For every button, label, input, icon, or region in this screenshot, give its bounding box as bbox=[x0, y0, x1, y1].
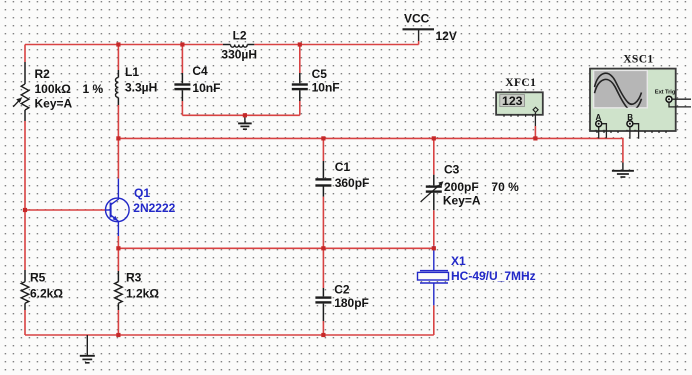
ground scope bbox=[612, 163, 634, 178]
svg-text:HC-49/U_7MHz: HC-49/U_7MHz bbox=[451, 269, 536, 283]
svg-text:3.3µH: 3.3µH bbox=[125, 80, 157, 94]
svg-text:70 %: 70 % bbox=[491, 180, 519, 194]
transistor Q1 bbox=[106, 179, 130, 236]
svg-text:Ext Trig: Ext Trig bbox=[655, 89, 676, 95]
junction top bus C5 bbox=[298, 42, 302, 46]
junction bottom bus C2 bbox=[321, 333, 325, 337]
svg-text:12V: 12V bbox=[436, 29, 457, 43]
svg-text:C2: C2 bbox=[334, 282, 350, 296]
svg-text:C3: C3 bbox=[444, 163, 460, 177]
svg-text:R3: R3 bbox=[126, 270, 142, 284]
svg-text:L1: L1 bbox=[125, 65, 139, 79]
svg-text:1 %: 1 % bbox=[83, 82, 104, 96]
junction collector bus XFC1 bbox=[533, 136, 537, 140]
svg-text:C1: C1 bbox=[335, 160, 351, 174]
svg-text:Key=A: Key=A bbox=[35, 96, 73, 110]
junction collector bus C1 bbox=[321, 136, 325, 140]
wire collector bus bbox=[118, 137, 606, 139]
svg-text:330µH: 330µH bbox=[221, 48, 257, 62]
ground tank bbox=[238, 115, 252, 129]
capacitor C4 bbox=[174, 45, 220, 116]
wire collector column bbox=[117, 45, 119, 336]
inductor L1 bbox=[115, 65, 157, 105]
wire top bus bbox=[25, 44, 419, 46]
capacitor C5 bbox=[292, 45, 340, 116]
svg-text:Key=A: Key=A bbox=[443, 193, 481, 207]
junction emitter bus X1 bbox=[432, 246, 436, 250]
svg-text:R5: R5 bbox=[30, 270, 46, 284]
svg-text:XSC1: XSC1 bbox=[623, 53, 653, 65]
junction emitter bus C2 bbox=[321, 246, 325, 250]
power VCC bbox=[403, 11, 457, 44]
junction top bus C4 bbox=[180, 42, 184, 46]
variable capacitor C3 bbox=[421, 138, 519, 210]
wire XFC1 drop bbox=[534, 113, 536, 139]
svg-text:10nF: 10nF bbox=[312, 80, 340, 94]
resistor R3 bbox=[115, 270, 160, 310]
svg-text:123: 123 bbox=[502, 94, 523, 108]
capacitor C1 bbox=[315, 138, 369, 248]
svg-text:10nF: 10nF bbox=[192, 81, 220, 95]
oscilloscope XSC1 bbox=[590, 53, 691, 139]
svg-text:C4: C4 bbox=[192, 64, 208, 78]
svg-text:Q1: Q1 bbox=[134, 186, 150, 200]
svg-text:R2: R2 bbox=[35, 67, 51, 81]
svg-text:1.2kΩ: 1.2kΩ bbox=[126, 287, 159, 301]
svg-text:100kΩ: 100kΩ bbox=[35, 82, 72, 96]
svg-text:180pF: 180pF bbox=[334, 296, 369, 310]
junction tank ground bbox=[243, 113, 247, 117]
potentiometer R2 bbox=[13, 62, 103, 121]
svg-text:6.2kΩ: 6.2kΩ bbox=[30, 287, 63, 301]
wire tank ground rail bbox=[182, 114, 299, 116]
svg-text:X1: X1 bbox=[451, 254, 466, 268]
svg-text:L2: L2 bbox=[233, 29, 247, 43]
junction top bus L1 bbox=[116, 42, 120, 46]
wire scope A- to ground bbox=[606, 139, 623, 163]
wire emitter bus bbox=[118, 247, 433, 249]
frequency counter XFC1 bbox=[496, 77, 543, 117]
svg-text:C5: C5 bbox=[312, 67, 328, 81]
ground bottom bbox=[80, 335, 95, 363]
wire bottom bus bbox=[25, 334, 434, 336]
capacitor C2 bbox=[315, 248, 368, 335]
junction collector bus C3 bbox=[432, 136, 436, 140]
junction base bbox=[23, 208, 27, 212]
svg-text:2N2222: 2N2222 bbox=[133, 201, 175, 215]
svg-text:360pF: 360pF bbox=[335, 176, 370, 190]
wire left column bbox=[24, 45, 26, 336]
resistor R5 bbox=[21, 270, 63, 310]
inductor L2 bbox=[221, 29, 257, 62]
svg-text:XFC1: XFC1 bbox=[505, 77, 536, 89]
wire base bbox=[25, 209, 106, 211]
junction collector bus left bbox=[116, 136, 120, 140]
crystal X1 bbox=[418, 210, 536, 335]
junction emitter bbox=[116, 246, 120, 250]
svg-text:200pF: 200pF bbox=[444, 180, 479, 194]
junction bottom bus R3 bbox=[116, 333, 120, 337]
svg-text:VCC: VCC bbox=[404, 11, 430, 25]
